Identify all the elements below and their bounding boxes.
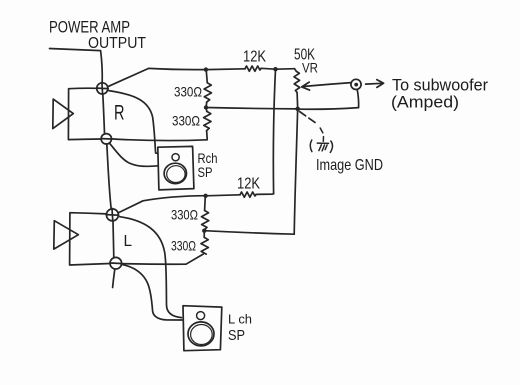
wire dashed to image gnd note [300,112,318,125]
binding post L+ [106,208,119,221]
wire L+ curve to Lch speaker [120,217,182,318]
wire dash segment near gnd symbol [320,128,323,141]
svg-text:330Ω: 330Ω [172,113,200,129]
svg-text:330Ω: 330Ω [171,207,198,223]
speaker L ch SP [183,306,222,351]
resistor 12K (R channel) [245,66,261,71]
svg-text:330Ω: 330Ω [174,84,202,100]
wire L amp bracket [70,213,110,265]
binding post L- [110,257,122,269]
node A junction dot [204,67,208,71]
resistor 330 L1 [201,196,208,231]
op-amp L channel triangle [54,221,79,249]
op-amp R channel triangle [53,99,74,129]
svg-text:330Ω: 330Ω [171,238,196,254]
wire node F right to riser [204,231,294,235]
arrow to subwoofer [366,80,384,88]
wire riser up to node H [294,111,297,234]
svg-text:(Amped): (Amped) [391,93,459,112]
wire 12K to node D [261,67,276,70]
resistor 330 R1 [204,70,211,107]
wire top-left from POWER AMP to R+ post [50,49,103,83]
wire L- rail to 330 L2 bottom [122,263,186,266]
speaker Rch SP [158,146,194,190]
wire L- curve to Lch speaker [122,264,182,320]
wire bus L+ to L- [112,221,115,257]
svg-text:L ch: L ch [228,312,252,327]
wire node E to 12K L [206,195,240,196]
wire R amp bracket [68,88,101,139]
svg-text:SP: SP [198,164,213,180]
ground symbol in parentheses [310,140,332,153]
svg-text:VR: VR [302,60,318,76]
wire R- rail to 330 bottom [112,139,208,141]
wire top rail to node A [149,68,206,69]
wiper arrow of VR [302,82,352,90]
wire diagonal from R+ to top rail [109,68,149,86]
wire R+ curve to Rch speaker [109,91,158,154]
svg-text:POWER AMP: POWER AMP [49,18,130,37]
wire 12K L to riser corner [256,193,274,196]
wire node A to 12K [206,68,245,71]
svg-text:Image GND: Image GND [316,157,383,174]
node F junction dot [202,229,206,233]
svg-text:12K: 12K [237,176,260,193]
wire node D down to L 12K [273,69,275,193]
resistor 330 R2 [204,108,211,139]
wire node B to node H [206,108,298,109]
wire node D to pot top [276,68,295,71]
node H junction dot [295,107,300,112]
node B junction dot [204,105,208,109]
svg-text:L: L [124,233,133,250]
binding post R+ [96,82,108,94]
svg-text:R: R [114,102,125,125]
wire stub below L- [113,269,115,287]
connector J1 output jack [351,79,361,89]
wire jack sleeve down to node H [300,90,359,110]
svg-text:12K: 12K [243,49,266,66]
potentiometer 50K VR [294,69,300,109]
wire R- curve to Rch speaker [110,143,159,166]
binding post R- [101,134,111,144]
svg-text:SP: SP [228,327,245,344]
resistor 12K (L channel) [240,192,256,197]
resistor 330 L2 [186,231,208,265]
node D junction dot [273,67,277,71]
wire bus R- to L+ [107,144,111,209]
wire bus R+ to R- [103,94,105,133]
wire diagonal from L+ to node E [119,196,205,213]
node E junction dot [203,194,207,198]
svg-text:OUTPUT: OUTPUT [88,35,146,52]
